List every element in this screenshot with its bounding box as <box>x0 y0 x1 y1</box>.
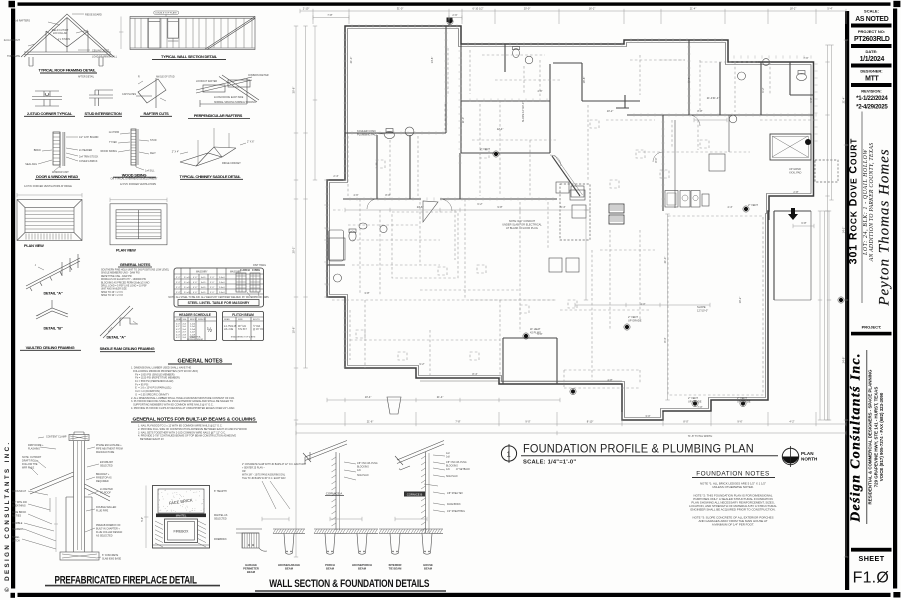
svg-text:NORMAL SPACING NORMAL SPACING: NORMAL SPACING NORMAL SPACING <box>214 101 256 104</box>
svg-text:VAULTED CEILING FRAMING: VAULTED CEILING FRAMING <box>26 345 75 350</box>
svg-text:2x4 LOOKOUT: 2x4 LOOKOUT <box>4 39 21 42</box>
svg-text:8'-0": 8'-0" <box>654 157 658 162</box>
svg-text:DETAIL "A": DETAIL "A" <box>43 291 62 296</box>
svg-text:1: 1 <box>507 450 511 459</box>
svg-text:2" VENT: 2" VENT <box>737 396 747 400</box>
svg-text:2x4 BLOCKING EACH SIDE: 2x4 BLOCKING EACH SIDE <box>214 96 244 99</box>
svg-text:BLOCKING: BLOCKING <box>357 467 369 469</box>
svg-text:BRICK: BRICK <box>190 319 197 321</box>
svg-text:3' 4": 3' 4" <box>176 277 180 279</box>
svg-text:4' 6": 4' 6" <box>193 292 197 294</box>
svg-text:4'-0": 4'-0" <box>640 302 645 306</box>
svg-text:SEAL ANG: SEAL ANG <box>25 163 37 166</box>
svg-text:31'-0": 31'-0" <box>397 7 404 11</box>
svg-text:5' 0": 5' 0" <box>210 277 214 279</box>
svg-text:3'-0": 3'-0" <box>645 414 650 418</box>
svg-text:GROUND AT: GROUND AT <box>12 490 27 493</box>
svg-text:CONTENT CLAMP: CONTENT CLAMP <box>46 436 67 439</box>
svg-text:SPAN: SPAN <box>224 318 230 321</box>
svg-text:BLOCKING AS PRICED PERM 20x8x1: BLOCKING AS PRICED PERM 20x8x1/2 UNO <box>101 281 150 284</box>
svg-text:SOUTHERN PINE HGLN UNIT TO 2X: SOUTHERN PINE HGLN UNIT TO 2X6 POSITIONS… <box>101 270 170 272</box>
svg-text:LVL 2.0E: LVL 2.0E <box>224 329 234 331</box>
svg-text:2-2x7: 2-2x7 <box>190 332 196 334</box>
svg-text:*2-4/29/2025: *2-4/29/2025 <box>856 103 888 110</box>
svg-text:HEADERS: HEADERS <box>12 528 24 531</box>
svg-text:9'-6": 9'-6" <box>737 420 742 424</box>
svg-text:PORCH: PORCH <box>325 563 335 567</box>
svg-text:BOLTS: BOLTS <box>253 319 260 321</box>
svg-text:+ SEATER 25 PLAN --: + SEATER 25 PLAN -- <box>242 467 265 470</box>
svg-text:23'-6": 23'-6" <box>417 205 424 209</box>
svg-text:STUD: STUD <box>150 139 157 142</box>
svg-text:MASONRY: MASONRY <box>196 271 208 274</box>
svg-text:VOICE (817) 905-7374 - FAX (68: VOICE (817) 905-7374 - FAX (682) 323-309… <box>879 392 884 481</box>
svg-text:HEADER SCHEDULE: HEADER SCHEDULE <box>179 313 211 317</box>
svg-text:2-2x4: 2-2x4 <box>190 324 196 326</box>
svg-text:1/2" SHEATHING: 1/2" SHEATHING <box>447 510 465 513</box>
svg-text:PT2603RLD: PT2603RLD <box>854 36 890 43</box>
svg-text:FIREBOX: FIREBOX <box>174 530 190 534</box>
svg-text:PERPENDICULAR RAFTERS: PERPENDICULAR RAFTERS <box>194 113 243 118</box>
svg-text:24'-8": 24'-8" <box>842 357 846 364</box>
svg-text:NORTH: NORTH <box>801 457 818 462</box>
svg-text:WITH 3/8" - 10/TS PANS ASSURIN: WITH 3/8" - 10/TS PANS ASSURING DNL <box>242 474 286 477</box>
svg-text:RAFTER CUTS: RAFTER CUTS <box>143 111 169 116</box>
svg-text:REPETITIVE USE - DAW PSI: REPETITIVE USE - DAW PSI <box>101 275 132 278</box>
svg-text:DETAIL "A": DETAIL "A" <box>106 335 125 340</box>
svg-text:LATCH: LATCH <box>12 540 20 543</box>
svg-text:KOHLER CONC: KOHLER CONC <box>357 129 376 133</box>
svg-text:FLITCH BEAM: FLITCH BEAM <box>232 313 254 317</box>
svg-text:PERIMETER: PERIMETER <box>243 566 259 570</box>
svg-text:F1.Ø: F1.Ø <box>853 570 889 587</box>
svg-text:4' 6": 4' 6" <box>193 277 197 279</box>
svg-text:2" VENT: 2" VENT <box>628 315 638 319</box>
svg-text:W. HEAT: W. HEAT <box>530 327 541 331</box>
svg-text:C BRG: C BRG <box>252 269 260 272</box>
svg-text:5' 0": 5' 0" <box>210 282 214 284</box>
svg-text:CAP PLATES: CAP PLATES <box>122 93 136 96</box>
svg-text:6'-2": 6'-2" <box>761 87 765 92</box>
svg-text:TYVEK: TYVEK <box>109 141 117 144</box>
svg-text:NOTE: RAY CONDUIT: NOTE: RAY CONDUIT <box>509 219 536 223</box>
svg-text:1/8" SHEA TEX: 1/8" SHEA TEX <box>447 492 463 495</box>
svg-text:4'-6": 4'-6" <box>537 89 542 93</box>
svg-text:5'-4": 5'-4" <box>827 7 832 11</box>
svg-text:8'-4": 8'-4" <box>472 372 477 376</box>
svg-text:1x4 TRIM: 1x4 TRIM <box>109 131 119 134</box>
svg-text:21'-4": 21'-4" <box>437 395 444 399</box>
svg-text:2" X 4": 2" X 4" <box>172 151 179 154</box>
svg-text:PLAN: PLAN <box>801 451 814 456</box>
svg-text:SELECTED: SELECTED <box>100 465 113 468</box>
svg-text:8'-0": 8'-0" <box>385 193 390 197</box>
svg-text:14'-2": 14'-2" <box>842 227 846 234</box>
svg-text:16'-8": 16'-8" <box>582 77 586 84</box>
svg-text:CEILING JOIST: CEILING JOIST <box>92 50 110 53</box>
svg-text:PLAN VIEW: PLAN VIEW <box>24 243 44 248</box>
svg-text:4'-8": 4'-8" <box>607 378 612 382</box>
svg-text:5'-4": 5'-4" <box>560 205 565 209</box>
svg-text:HOUSE/PORCH: HOUSE/PORCH <box>352 563 372 567</box>
svg-text:5' 0": 5' 0" <box>210 292 214 294</box>
svg-text:3'-8": 3'-8" <box>364 291 369 295</box>
svg-text:4'-3": 4'-3" <box>176 332 180 334</box>
svg-text:UP GRND: UP GRND <box>789 167 801 171</box>
svg-text:2x6 RAFTERS: 2x6 RAFTERS <box>14 20 30 23</box>
svg-text:FLASHING: FLASHING <box>28 448 40 451</box>
svg-text:SHEET: SHEET <box>859 554 885 563</box>
svg-text:SLOPE 12"/10'-0": SLOPE 12"/10'-0" <box>521 102 525 123</box>
svg-text:4. PROVIDE PLYWOOD CLIPS AT DE: 4. PROVIDE PLYWOOD CLIPS AT DECKING AT U… <box>131 407 235 410</box>
svg-text:1/2" GYP. BOARD: 1/2" GYP. BOARD <box>79 136 99 139</box>
svg-text:4'-5": 4'-5" <box>176 337 180 339</box>
svg-text:11'-0": 11'-0" <box>461 117 465 123</box>
svg-text:THIMBLE: THIMBLE <box>12 522 23 525</box>
svg-text:Peyton Thomas Homes: Peyton Thomas Homes <box>877 148 893 306</box>
svg-text:SCALE: 1/4"=1'-0": SCALE: 1/4"=1'-0" <box>523 460 576 466</box>
svg-text:BEAM: BEAM <box>285 566 294 570</box>
svg-text:TYPICAL WALL SECTION DETAIL: TYPICAL WALL SECTION DETAIL <box>161 54 218 59</box>
svg-text:1x4 SILL: 1x4 SILL <box>145 170 155 173</box>
svg-text:21'-4": 21'-4" <box>690 7 697 11</box>
svg-text:2" VENT: 2" VENT <box>748 203 758 207</box>
svg-text:STL PLT: STL PLT <box>238 329 247 331</box>
svg-text:FACE BRICK: FACE BRICK <box>447 503 461 506</box>
svg-text:4'-4": 4'-4" <box>727 205 732 209</box>
svg-text:1/8" OSC WL PLNG: 1/8" OSC WL PLNG <box>357 463 378 465</box>
svg-text:9'-4": 9'-4" <box>687 77 691 82</box>
svg-text:301 ROCK DOVE COURT: 301 ROCK DOVE COURT <box>848 138 860 265</box>
svg-text:10'-2": 10'-2" <box>607 109 614 113</box>
svg-text:9'-8": 9'-8" <box>497 205 502 209</box>
svg-text:14'-6": 14'-6" <box>430 57 434 64</box>
svg-text:20'-0": 20'-0" <box>524 7 531 11</box>
svg-text:RIDGE CRICKET: RIDGE CRICKET <box>222 162 241 165</box>
svg-text:STAGGERED TOP & BTM: STAGGERED TOP & BTM <box>231 336 256 339</box>
svg-text:2-2x5: 2-2x5 <box>190 326 196 328</box>
svg-text:SPAN: SPAN <box>176 318 182 321</box>
svg-text:4'-4": 4'-4" <box>176 334 180 336</box>
svg-text:5'-0": 5'-0" <box>141 517 144 522</box>
svg-text:COVER A BRICK: COVER A BRICK <box>79 160 98 163</box>
svg-text:SLAB 8000 BASE: SLAB 8000 BASE <box>102 558 122 561</box>
svg-text:2-6x4: 2-6x4 <box>219 292 225 294</box>
svg-text:ENGINEER SHALL BE ACQUIRED PRI: ENGINEER SHALL BE ACQUIRED PRIOR TO CONS… <box>690 508 775 512</box>
svg-text:4' 6": 4' 6" <box>193 287 197 289</box>
svg-text:DOUBLE TOP PLATE: DOUBLE TOP PLATE <box>155 12 177 15</box>
svg-text:2-STUD CORNER TYPICAL: 2-STUD CORNER TYPICAL <box>27 111 73 116</box>
svg-text:9'-0": 9'-0" <box>525 420 530 424</box>
svg-text:10'-6": 10'-6" <box>292 327 296 334</box>
svg-text:6'-10 1/2": 6'-10 1/2" <box>473 7 484 11</box>
svg-text:8'-0": 8'-0" <box>683 420 688 424</box>
svg-text:2 x STUDS: 2 x STUDS <box>58 38 70 41</box>
svg-text:4'-2": 4'-2" <box>176 329 180 331</box>
svg-text:PROJECT:: PROJECT: <box>862 325 882 330</box>
svg-text:TYPICAL ROOF FRAMING DETAIL: TYPICAL ROOF FRAMING DETAIL <box>38 68 96 73</box>
svg-text:RESIDENTIAL & COMMERCIAL DESIG: RESIDENTIAL & COMMERCIAL DESIGNERS - SPA… <box>868 369 873 504</box>
svg-text:BRICK: BRICK <box>34 149 42 152</box>
svg-text:9'-2": 9'-2" <box>419 362 424 366</box>
svg-text:5'-8": 5'-8" <box>809 97 813 102</box>
svg-text:8" HEARTH: 8" HEARTH <box>214 490 227 493</box>
svg-text:© DESIGN CONSULTANTS INC.: © DESIGN CONSULTANTS INC. <box>4 440 11 592</box>
svg-text:2'-8": 2'-8" <box>793 190 798 194</box>
svg-text:SINGLE MEMBERS UNO - DAW PSI: SINGLE MEMBERS UNO - DAW PSI <box>101 272 140 275</box>
svg-text:7'-6": 7'-6" <box>803 56 808 60</box>
svg-text:LOAD BEARING WALL: LOAD BEARING WALL <box>92 56 118 59</box>
svg-text:12 PVC FORCED VENTILATORS AT R: 12 PVC FORCED VENTILATORS AT RIDGE <box>24 185 72 188</box>
svg-text:@ 16" OC: @ 16" OC <box>253 329 264 331</box>
svg-text:21'-4": 21'-4" <box>707 96 714 100</box>
svg-text:6'-0": 6'-0" <box>537 332 542 336</box>
svg-text:AS TIES: AS TIES <box>12 515 22 518</box>
svg-text:BEAM: BEAM <box>358 566 367 570</box>
svg-text:GENERAL NOTES: GENERAL NOTES <box>120 262 151 267</box>
svg-text:4'-0": 4'-0" <box>176 324 180 326</box>
svg-text:C ARCH: C ARCH <box>240 269 250 272</box>
svg-text:HOUSE: HOUSE <box>423 563 433 567</box>
svg-text:8'-4": 8'-4" <box>663 337 667 342</box>
svg-text:6'-2": 6'-2" <box>477 202 482 206</box>
svg-text:6'-8": 6'-8" <box>801 221 806 225</box>
svg-text:7'-8": 7'-8" <box>327 13 332 17</box>
svg-text:MTT: MTT <box>865 75 879 82</box>
svg-text:2" VENT: 2" VENT <box>688 396 698 400</box>
svg-text:COMMON RAFTER: COMMON RAFTER <box>248 74 269 77</box>
svg-text:TYPICAL CHIMNEY SADDLE DETAIL: TYPICAL CHIMNEY SADDLE DETAIL <box>179 174 241 179</box>
svg-text:4' 6": 4' 6" <box>193 282 197 284</box>
svg-text:REQUIRED: REQUIRED <box>96 480 109 483</box>
svg-text:MFR RULE: MFR RULE <box>22 467 35 470</box>
svg-text:SLOPE: SLOPE <box>697 305 706 309</box>
svg-text:REVISION:: REVISION: <box>861 88 881 93</box>
svg-text:20'-2": 20'-2" <box>292 247 296 254</box>
svg-text:SIZE: SIZE <box>238 319 243 321</box>
svg-text:19'-2": 19'-2" <box>738 297 742 304</box>
svg-text:MANTEL: MANTEL <box>176 514 187 518</box>
svg-text:BEAM: BEAM <box>326 566 335 570</box>
svg-text:2-6x4: 2-6x4 <box>219 287 225 289</box>
svg-text:71'-8" TOTAL WIDTH: 71'-8" TOTAL WIDTH <box>688 434 713 438</box>
svg-text:SHEATHING: SHEATHING <box>12 505 26 508</box>
svg-text:SELECTED: SELECTED <box>214 518 227 521</box>
svg-text:3' 4": 3' 4" <box>176 282 180 284</box>
svg-text:PLAN VIEW: PLAN VIEW <box>116 248 136 253</box>
svg-text:BEAM: BEAM <box>247 570 256 574</box>
svg-text:2-6x4: 2-6x4 <box>219 282 225 284</box>
svg-text:ANGLE OF STUD: ANGLE OF STUD <box>156 76 175 79</box>
svg-text:7'-0": 7'-0" <box>697 405 702 409</box>
svg-text:DATE:: DATE: <box>866 49 878 54</box>
svg-text:1/1/2024: 1/1/2024 <box>860 56 885 63</box>
svg-text:FOUNDATION NOTES: FOUNDATION NOTES <box>696 471 770 478</box>
svg-text:SCALE:: SCALE: <box>864 8 879 13</box>
svg-text:Deśign Conśultantś Inc.: Deśign Conśultantś Inc. <box>848 352 863 523</box>
svg-text:CORNICE B: CORNICE B <box>407 492 423 496</box>
svg-text:½: ½ <box>207 327 212 334</box>
svg-text:30'-6": 30'-6" <box>292 87 296 94</box>
svg-text:STEEL LINTEL TABLE FOR MASONRY: STEEL LINTEL TABLE FOR MASONRY <box>188 301 251 305</box>
svg-text:LOT: 24, BLK: 1 - QUAIL HOLLOW: LOT: 24, BLK: 1 - QUAIL HOLLOW <box>862 149 869 256</box>
svg-text:2-2x6: 2-2x6 <box>190 329 196 331</box>
svg-text:UP GRADE: UP GRADE <box>628 319 642 323</box>
svg-text:16'-2": 16'-2" <box>589 7 596 11</box>
svg-text:TIE BEAM: TIE BEAM <box>389 566 403 570</box>
svg-text:5' 0": 5' 0" <box>210 287 214 289</box>
svg-text:AS NOTED: AS NOTED <box>855 16 889 23</box>
svg-text:PROJECT NO:: PROJECT NO: <box>858 29 885 34</box>
svg-text:DETAIL "B": DETAIL "B" <box>43 326 62 331</box>
svg-text:HOUSE/GARAGE: HOUSE/GARAGE <box>278 563 300 567</box>
svg-text:12 PVC FORCED VENTILATORS: 12 PVC FORCED VENTILATORS <box>120 183 156 186</box>
svg-text:*1-1/22/2024: *1-1/22/2024 <box>856 95 888 102</box>
svg-text:21'-0": 21'-0" <box>349 57 353 64</box>
svg-text:SCE PLAN: SCE PLAN <box>357 474 369 477</box>
svg-text:SPAN TO 26' = 2 X 6: SPAN TO 26' = 2 X 6 <box>101 291 123 294</box>
svg-text:SPAN TO 30' = 2 X 8: SPAN TO 30' = 2 X 8 <box>101 294 123 297</box>
svg-text:RIDGE BOARD: RIDGE BOARD <box>85 14 102 17</box>
svg-text:FELT: FELT <box>150 152 156 155</box>
svg-text:2" X 6": 2" X 6" <box>247 141 254 144</box>
svg-text:18'-2": 18'-2" <box>790 7 797 11</box>
svg-text:2-1.75x9.25: 2-1.75x9.25 <box>224 326 237 328</box>
svg-text:UNIT AND NAILER SIZE: UNIT AND NAILER SIZE <box>101 288 127 291</box>
svg-text:BEAM: BEAM <box>424 566 433 570</box>
svg-text:DESIGNER:: DESIGNER: <box>860 69 882 74</box>
svg-text:2'-4": 2'-4" <box>333 174 338 178</box>
svg-text:7'-8": 7'-8" <box>455 420 460 424</box>
svg-text:GARAGE: GARAGE <box>245 563 257 567</box>
svg-text:OR:: OR: <box>242 471 246 473</box>
svg-text:STUD INTERSECTION: STUD INTERSECTION <box>85 111 122 116</box>
svg-text:MANUFACTURE: MANUFACTURE <box>96 451 115 454</box>
svg-text:CONSULT ENGR: CONSULT ENGR <box>187 339 204 341</box>
svg-text:AN ADDITION TO PARKER COUNTY,: AN ADDITION TO PARKER COUNTY, TEXAS <box>869 143 875 263</box>
svg-text:FLUE PIPE: FLUE PIPE <box>96 510 109 513</box>
svg-text:MODULUS OF ELASTICITY - 160000: MODULUS OF ELASTICITY - 1600000 PSI <box>101 278 146 281</box>
svg-text:21'-0": 21'-0" <box>663 257 667 264</box>
svg-text:LOOKOUT RAFTER: LOOKOUT RAFTER <box>196 80 217 83</box>
svg-text:BLOCKING: BLOCKING <box>446 466 458 468</box>
svg-text:FIREBRICK: FIREBRICK <box>214 538 227 541</box>
svg-text:4'-6": 4'-6" <box>353 193 358 197</box>
svg-text:2" CONCRETE SLAB WITH JD BARS: 2" CONCRETE SLAB WITH JD BARS AT 12" O.C… <box>242 463 307 466</box>
svg-text:2'-6": 2'-6" <box>452 13 457 17</box>
svg-text:DRILL LOAD = 5 PSF LIVE L: DRILL LOAD = 5 PSF LIVE LOAD = 10 PSF <box>101 285 147 288</box>
svg-text:3' 4": 3' 4" <box>176 287 180 289</box>
svg-text:SINGLE RAM CEILING FRAMING: SINGLE RAM CEILING FRAMING <box>100 346 155 351</box>
svg-text:CORNICE A: CORNICE A <box>326 492 343 496</box>
svg-text:DOOR & WINDOW HEAD: DOOR & WINDOW HEAD <box>36 174 78 179</box>
svg-text:AS SELECTED: AS SELECTED <box>96 535 113 538</box>
svg-text:TILE TO JD BARS W 36" O.C. EAC: TILE TO JD BARS W 36" O.C. EACH WAY <box>242 477 286 480</box>
svg-text:UNDER SLAB FOR ELECTRICAL: UNDER SLAB FOR ELECTRICAL <box>502 223 542 227</box>
svg-text:2x HEADER: 2x HEADER <box>79 149 92 152</box>
svg-text:TO ROOF: TO ROOF <box>100 492 111 495</box>
svg-text:AT BLANK 4 FLOOR PLUG: AT BLANK 4 FLOOR PLUG <box>506 226 538 230</box>
svg-text:TOP PLATE: TOP PLATE <box>7 55 20 58</box>
svg-text:WOOD SIDING: WOOD SIDING <box>100 150 117 153</box>
svg-text:12"/10'-0": 12"/10'-0" <box>697 309 708 313</box>
svg-text:2x6 COLLAR: 2x6 COLLAR <box>53 32 67 35</box>
svg-text:XXXL PAD: XXXL PAD <box>789 171 802 175</box>
svg-text:1/8" OSC WL PLNG: 1/8" OSC WL PLNG <box>446 462 467 464</box>
svg-text:INTERIOR: INTERIOR <box>389 563 402 567</box>
svg-text:SIZE/JB: SIZE/JB <box>198 319 206 321</box>
svg-text:WALL SECTION & FOUNDATION DETA: WALL SECTION & FOUNDATION DETAILS <box>269 578 430 590</box>
svg-text:UP GRADE: UP GRADE <box>688 399 702 403</box>
svg-text:FOUNDATION PROFILE & PLUMBING: FOUNDATION PROFILE & PLUMBING PLAN <box>523 442 754 456</box>
svg-text:4'-1": 4'-1" <box>176 326 180 328</box>
svg-text:21'-4": 21'-4" <box>842 97 846 104</box>
svg-text:4'-2": 4'-2" <box>789 420 794 424</box>
svg-text:UP GRADE: UP GRADE <box>737 399 751 403</box>
svg-text:SCE PLAN: SCE PLAN <box>446 475 458 478</box>
svg-text:2" VENT: 2" VENT <box>480 147 490 151</box>
svg-text:12'-4": 12'-4" <box>497 127 504 131</box>
svg-text:21'-4": 21'-4" <box>713 96 720 100</box>
svg-text:BETWEEN EACH 2X: BETWEEN EACH 2X <box>138 438 164 441</box>
svg-text:ON TYPICAL OVERHEAD DEVELOPMEN: ON TYPICAL OVERHEAD DEVELOPMENT <box>111 178 158 181</box>
svg-text:729 GRAPEVINE HWY, STE 141 - H: 729 GRAPEVINE HWY, STE 141 - HURST, TEXA… <box>874 387 879 488</box>
svg-text:2x4 TRIM STOCK: 2x4 TRIM STOCK <box>79 156 99 159</box>
svg-text:2'-10": 2'-10" <box>303 7 310 11</box>
svg-text:3' 4": 3' 4" <box>176 292 180 294</box>
svg-text:2-6x4: 2-6x4 <box>219 277 225 279</box>
svg-text:21'-6": 21'-6" <box>367 420 374 424</box>
svg-text:NOTE: ALL STEEL TO BE A36. ALL: NOTE: ALL STEEL TO BE A36. ALL WELDS BY … <box>168 296 269 299</box>
svg-text:A MINIMUM OF 1/4" PER FOOT.: A MINIMUM OF 1/4" PER FOOT. <box>712 523 754 527</box>
svg-text:8'-8": 8'-8" <box>697 109 702 113</box>
svg-text:8'-10": 8'-10" <box>587 420 594 424</box>
svg-text:UNLESS OTHERWISE NOTED.: UNLESS OTHERWISE NOTED. <box>712 485 754 489</box>
svg-text:10'-4": 10'-4" <box>365 395 372 399</box>
